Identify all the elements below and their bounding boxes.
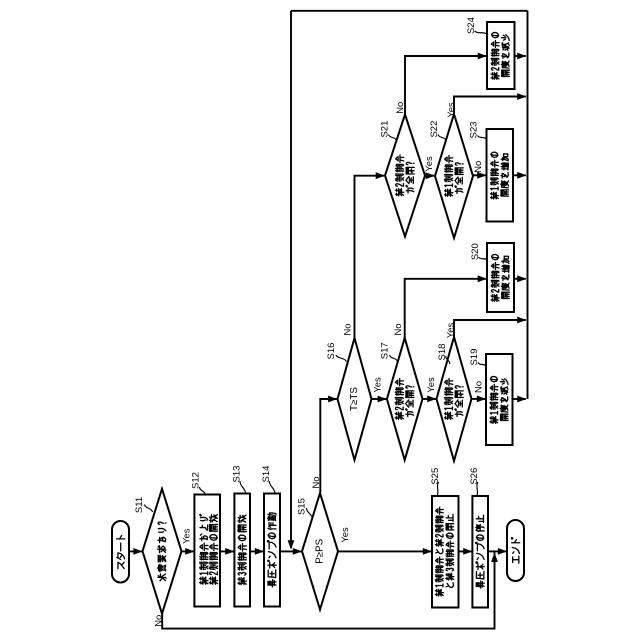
arrow bottom loop into End line [491,553,498,562]
decision S16 T>=TS [338,338,372,460]
svg-text:No: No [473,381,484,393]
svg-text:Yes: Yes [445,102,456,118]
arrow into S14 [255,548,264,555]
wire S16 No up to S21 [355,176,385,338]
label S24 connector [475,31,488,35]
decision S21 valve2 fully closed? [385,115,425,237]
svg-text:Yes: Yes [423,156,434,172]
S21 text col1 [395,155,403,196]
S24 text col2 [501,35,509,77]
arrow S23 into return line [517,172,526,179]
label S16 connector [336,355,347,362]
label S11 connector [145,505,153,513]
svg-text:No: No [472,161,483,173]
S12 text col2 [209,515,217,585]
S22 text col2 [455,163,463,194]
process S24 decrease valve2 opening [487,22,515,89]
arrow into S23 [477,172,486,179]
arrow S24 into return line [517,53,526,60]
S19 text col2 [500,379,508,421]
S20 text col2 [501,256,509,298]
arrow into S22 [426,172,435,179]
wire S11 No loop: down, along bottom, up to End [162,553,494,629]
wire S19 out to return line [513,398,526,400]
wire main flow line [129,550,302,552]
decision S17 valve2 fully open? [387,338,423,460]
process S12 open valves 1 and 2 [194,495,220,607]
arrow into S21 [376,172,385,179]
label S19 connector [478,363,486,367]
svg-text:Yes: Yes [339,527,350,543]
S17 text col1 [395,379,403,420]
process S20 increase valve2 opening [487,243,514,312]
label S14 connector [269,481,275,494]
S11 text [157,522,166,581]
wire S17 Yes to S18 [423,398,436,400]
wire S22 No to S23 [473,174,486,176]
label S22 connector [438,135,446,141]
wire S18 Yes up and right to return line [454,320,526,337]
arrow S19 into return line [517,396,526,403]
process S26 stop booster pump [472,496,488,608]
arrow into S19 [477,396,486,403]
arrow into S24 [478,53,487,60]
wire return line right vertical [527,11,529,399]
svg-text:No: No [153,615,164,627]
wire S15 Yes to S25/S26/End [338,550,507,552]
svg-text:No: No [392,324,403,336]
arrow junction into main line [288,540,295,549]
arrow into S16 [328,396,337,403]
svg-text:Yes: Yes [180,528,191,544]
svg-text:S12: S12 [191,472,202,489]
svg-text:No: No [310,477,321,489]
svg-text:Yes: Yes [425,377,436,393]
S21 text col2 [406,162,414,193]
arrow into S18 [427,396,436,403]
S25 text col2 [446,514,454,587]
label S13 connector [240,481,246,494]
svg-text:S14: S14 [261,466,272,483]
start text [117,535,125,568]
svg-text:S26: S26 [469,468,480,485]
svg-text:Yes: Yes [372,377,383,393]
svg-text:No: No [394,102,405,114]
process S19 decrease valve1 opening [486,354,513,445]
S13 text [238,515,246,585]
start terminal [112,521,129,583]
decision S15 P>=PS [302,493,338,609]
arrow into S25 [423,548,432,555]
decision S11 hydrogen demand? [143,489,182,614]
label S15 connector [306,508,312,519]
arrow into S15 [293,548,302,555]
decision S18 valve1 fully closed? [437,337,472,461]
wire S21 No up to S24 [405,56,486,115]
label S25 connector [437,482,439,496]
wire S18 No to S19 [472,398,486,400]
wire S15 No up to S16 [320,399,336,493]
end text [512,538,520,563]
wire S24 out to return line [515,55,526,57]
S25 text col1 [435,507,443,596]
svg-text:No: No [342,324,353,336]
svg-text:S17: S17 [380,342,391,359]
S18 text col2 [455,386,463,417]
process S14 start booster pump [264,494,280,607]
wire return line left vertical down to junction [290,11,292,548]
S23 text col1 [490,152,498,199]
arrow S20 into return line [517,275,526,282]
wire S20 out to return line [514,278,526,280]
svg-text:T≥TS: T≥TS [349,387,360,411]
wire S21 Yes to S22 [425,175,434,177]
S12 text col1 [200,514,208,584]
wire return line top horizontal [291,10,528,12]
S22 text col1 [444,156,452,197]
label S12 connector [199,487,205,495]
S17 text col2 [406,386,414,417]
arrow S18 Yes into return line [517,317,526,324]
process S13 open valve 3 [234,494,250,607]
S14 text [268,513,277,587]
label S21 connector [389,135,397,141]
svg-text:S16: S16 [326,343,337,360]
arrow into End [498,548,507,555]
arrow S22 Yes into return line [517,93,526,100]
S20 text col1 [491,254,499,301]
S18 text col1 [444,379,452,420]
wire S17 No up to S20 [405,279,487,338]
label S20 connector [479,257,488,261]
S24 text col1 [491,32,499,79]
arrow into S26 [463,548,472,555]
end terminal [507,520,524,581]
wire S22 Yes up and right to return line [454,97,526,115]
decision S22 valve1 fully open? [435,114,473,238]
svg-text:S15: S15 [297,498,308,515]
process S23 increase valve1 opening [487,129,514,222]
wire S23 out to return line [513,174,526,176]
label S18 connector [446,356,450,364]
label S26 connector [477,482,478,496]
arrow into S12 [185,548,194,555]
svg-text:P≥PS: P≥PS [315,538,326,563]
wire S16 Yes to S17 [372,398,387,400]
arrow into S20 [478,275,487,282]
svg-text:S25: S25 [430,468,441,485]
arrow into S13 [225,548,234,555]
label S23 connector [478,136,487,140]
S26 text [476,515,484,588]
svg-text:Yes: Yes [445,323,456,339]
svg-text:S13: S13 [232,466,243,483]
arrow into S17 [378,396,387,403]
process S25 close valves 1 2 3 [432,496,459,608]
label S17 connector [390,355,398,362]
svg-text:S11: S11 [134,497,145,513]
S23 text col2 [501,154,509,196]
arrow into S11 [133,548,142,555]
S19 text col1 [490,376,498,423]
